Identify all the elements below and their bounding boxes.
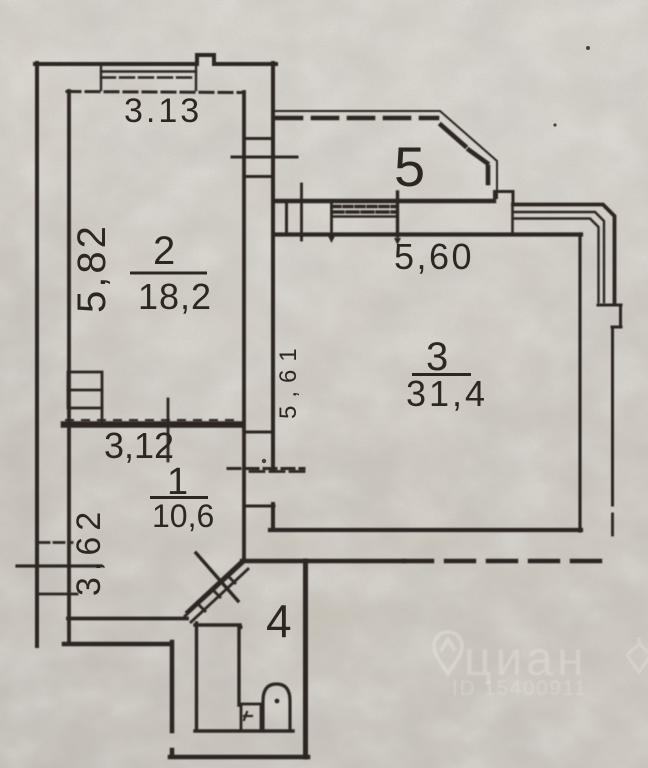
- balcony door ticks on room2 right wall: [244, 137, 273, 140]
- bathroom walls: [195, 623, 293, 731]
- svg-text:3,62: 3,62: [70, 506, 108, 596]
- X mark over door: [187, 553, 243, 612]
- fraction line room 2: [130, 272, 207, 275]
- watermark pin icon: [434, 632, 462, 674]
- notch on room3 top wall: [495, 192, 514, 205]
- svg-text:5,61: 5,61: [275, 340, 302, 419]
- wall: divider between rooms 2 and 1: [64, 421, 242, 428]
- fraction line room 3: [412, 373, 471, 376]
- svg-text:ID 15400911: ID 15400911: [452, 677, 587, 700]
- wall: outer top with notch: [35, 55, 276, 64]
- svg-text:10,6: 10,6: [152, 498, 214, 534]
- svg-text:18,2: 18,2: [138, 276, 212, 317]
- balcony thin outline: [276, 111, 497, 198]
- ticks on outer left wall: [39, 541, 72, 544]
- corridor top wall solid then dashed: [242, 559, 404, 563]
- room3 top inner wall: [274, 232, 581, 236]
- radiator/shaft box on left wall: [68, 372, 102, 422]
- wall: room2/room1 inner right face: [242, 92, 246, 561]
- wall: room2 right outer face (down to corridor): [271, 63, 275, 528]
- tick left of window W3: [300, 184, 303, 240]
- washbasin: [241, 704, 261, 731]
- wall: room2 inner top / window sill: [67, 92, 242, 93]
- dust specks: [262, 46, 590, 463]
- corner window left jamb: [511, 204, 514, 234]
- window W3 jamb arrows: [298, 233, 401, 245]
- corridor right wall: [303, 561, 308, 757]
- svg-text:5,82: 5,82: [70, 223, 114, 313]
- svg-text:3,12: 3,12: [104, 425, 174, 466]
- room3 inner right wall: [578, 234, 581, 531]
- divider hatch line: [66, 419, 238, 421]
- wall: outer left: [35, 63, 39, 646]
- watermark partial pin right edge: [627, 637, 648, 672]
- wall: bottom outer step: [64, 642, 308, 757]
- room3 top outer wall: [274, 199, 494, 203]
- svg-text:5,60: 5,60: [394, 236, 474, 277]
- fraction line room 1: [150, 496, 208, 499]
- svg-text:5: 5: [394, 135, 425, 198]
- wall: inner left: [67, 91, 71, 644]
- toilet: [263, 684, 290, 731]
- window W2 (top of room 2): [101, 64, 196, 90]
- corner window glazing (top-right): [513, 205, 615, 305]
- step below corner window: [598, 305, 621, 505]
- entry door diagonal: [185, 563, 248, 622]
- tick on divider: [167, 399, 170, 461]
- window W3 (room3 to balcony): [332, 192, 398, 236]
- bathroom inner vertical: [237, 626, 240, 705]
- svg-text:3.13: 3.13: [124, 92, 202, 130]
- balcony door jamb: [285, 201, 288, 233]
- wall: room1 bottom inner: [68, 617, 187, 621]
- svg-text:31,4: 31,4: [406, 373, 488, 414]
- balcony thick dashed outline: [277, 116, 437, 121]
- room3 inner bottom wall: [270, 528, 581, 532]
- room3 left wall ticks: [250, 470, 304, 473]
- svg-text:2: 2: [153, 229, 175, 273]
- svg-text:4: 4: [266, 595, 292, 647]
- ticks on right wall near corridor: [244, 431, 273, 434]
